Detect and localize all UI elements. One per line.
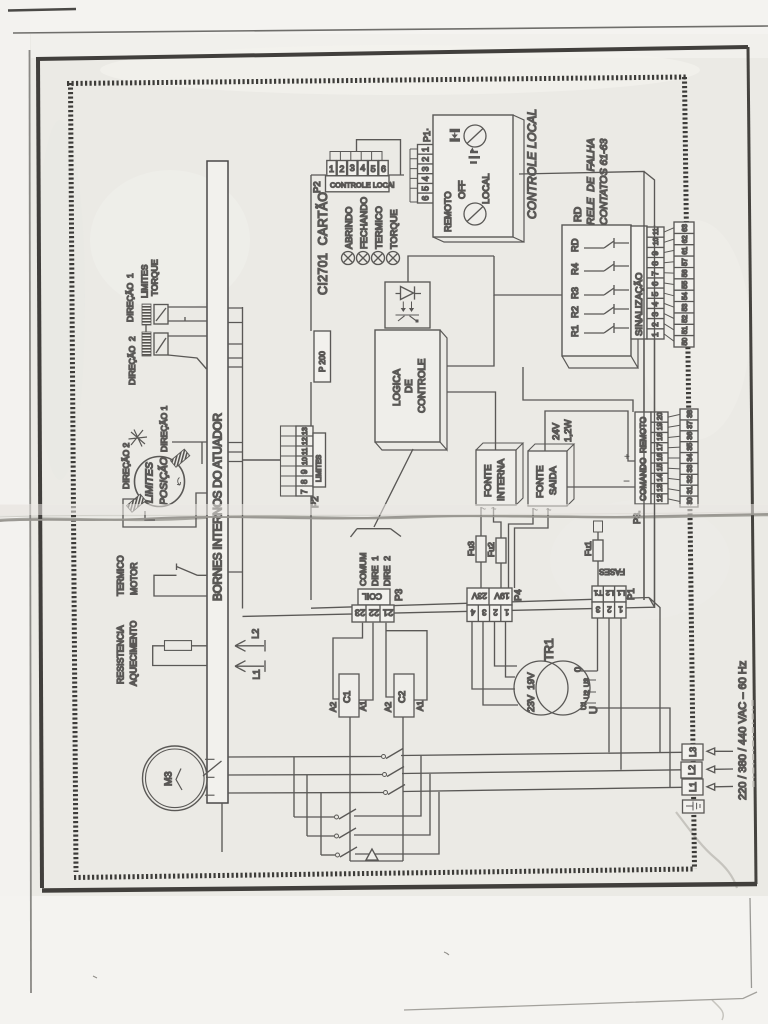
svg-text:10: 10 [302, 457, 309, 465]
resistencia aquecimento heater [153, 641, 207, 666]
svg-text:4: 4 [651, 301, 660, 306]
svg-text:FONTE: FONTE [483, 464, 494, 497]
wire TR1 tap U to L1 bus [597, 708, 670, 787]
svg-text:220 / 380 / 440 VAC – 60 Hz: 220 / 380 / 440 VAC – 60 Hz [737, 661, 749, 800]
terminal L1 [682, 779, 703, 795]
svg-text:U1: U1 [581, 701, 588, 710]
svg-text:A1: A1 [415, 700, 425, 711]
comando remoto label bar [635, 412, 651, 504]
reversing dropper 1 [293, 757, 295, 817]
svg-text:CI2701 CARTÃO: CI2701 CARTÃO [316, 192, 330, 295]
svg-text:37: 37 [687, 421, 694, 429]
svg-text:54: 54 [682, 292, 689, 300]
terminal L3 [682, 744, 703, 760]
wire controle local to sinalização feed [519, 172, 655, 609]
svg-text:19: 19 [657, 423, 664, 431]
wire relay block to comando remoto [523, 367, 633, 412]
switch icon H [450, 131, 461, 141]
main lower bus line [243, 598, 661, 753]
svg-text:LIMITES: LIMITES [140, 264, 150, 298]
controle local selector box [433, 115, 524, 242]
terminal strip 30-38 [680, 409, 698, 507]
fonte interna block [476, 443, 523, 509]
svg-text:Fu2: Fu2 [486, 542, 496, 557]
svg-text:23: 23 [355, 608, 365, 618]
svg-text:38: 38 [687, 410, 694, 418]
svg-text:C1: C1 [342, 691, 353, 703]
svg-text:ABRINDO: ABRINDO [344, 207, 354, 249]
contact C1 pole 3 [384, 791, 388, 795]
relay R2 contact [570, 304, 629, 318]
trunk rungs [228, 308, 243, 572]
svg-text:2: 2 [339, 164, 344, 174]
svg-text:TR1: TR1 [542, 638, 556, 661]
svg-text:P3: P3 [394, 588, 405, 601]
wire logica to fonte interna [447, 392, 496, 450]
contact C1 pole 2 [383, 773, 387, 777]
svg-text:3: 3 [595, 605, 600, 614]
wire P3 pin22 to C1 A1 [359, 623, 373, 700]
wires sinalização pins to strip 50-63 [664, 228, 674, 342]
motor phase wire 2 [228, 774, 382, 777]
svg-text:OFF: OFF [457, 180, 467, 199]
svg-text:5: 5 [421, 186, 431, 191]
svg-text:COMUM: COMUM [358, 553, 368, 586]
svg-text:30: 30 [687, 497, 694, 505]
svg-text:1: 1 [421, 147, 431, 152]
P4 connector [467, 588, 512, 622]
svg-text:6: 6 [421, 196, 431, 201]
wire P3 pin21 to C2 [386, 623, 427, 700]
svg-text:23V 19V: 23V 19V [526, 672, 537, 712]
svg-text:RELE DE FALHA: RELE DE FALHA [585, 138, 597, 225]
wire logica to sinalização [447, 295, 494, 366]
svg-text:P2: P2 [312, 181, 323, 193]
svg-text:L3: L3 [688, 747, 698, 757]
svg-text:LIMITES: LIMITES [144, 462, 156, 503]
svg-text:L2: L2 [251, 629, 261, 639]
svg-text:CONTROLE LOCAL: CONTROLE LOCAL [525, 109, 539, 219]
svg-text:62: 62 [682, 235, 689, 243]
wire P3 pin23 to C1 A2 [333, 623, 363, 699]
bottom faint line [404, 992, 757, 1010]
svg-text:P 200: P 200 [318, 351, 327, 372]
svg-text:CONTROLE LOCAl: CONTROLE LOCAl [330, 181, 395, 190]
svg-text:6: 6 [651, 281, 660, 286]
svg-text:7: 7 [651, 271, 660, 276]
svg-text:COMANDO REMOTO: COMANDO REMOTO [638, 416, 648, 501]
svg-text:13: 13 [657, 484, 664, 492]
svg-text:RD: RD [570, 238, 580, 252]
svg-text:63: 63 [682, 224, 689, 232]
svg-text:U2: U2 [584, 690, 591, 699]
svg-text:9: 9 [300, 469, 309, 474]
svg-text:57: 57 [682, 258, 689, 266]
fonte saida block [528, 444, 574, 510]
svg-text:56: 56 [682, 269, 689, 277]
thick outer frame [36, 47, 748, 59]
crease overlay line [0, 514, 768, 521]
svg-text:R4: R4 [570, 263, 580, 275]
svg-text:21: 21 [383, 608, 393, 618]
svg-text:4: 4 [470, 608, 475, 617]
svg-text:P1: P1 [626, 588, 637, 600]
svg-text:L2: L2 [687, 765, 697, 775]
svg-text:22: 22 [369, 608, 379, 618]
svg-text:11: 11 [302, 448, 309, 455]
svg-text:M3: M3 [163, 771, 175, 786]
svg-text:+: + [624, 452, 630, 463]
svg-text:34: 34 [687, 454, 694, 462]
svg-text:REMOTO: REMOTO [443, 191, 453, 232]
reversing dropper 2 [306, 775, 308, 836]
svg-text:15: 15 [657, 463, 664, 471]
svg-text:3: 3 [421, 166, 431, 171]
left thin edge line [30, 50, 32, 993]
motor M3 [143, 746, 208, 811]
svg-text:RESISTENCIA: RESISTENCIA [116, 625, 126, 684]
svg-text:35: 35 [687, 443, 694, 451]
limit switch torque direção 2 [142, 325, 168, 356]
arrow into L1 [707, 784, 733, 791]
bornes internos do atuador terminal bar [207, 161, 228, 803]
svg-text:SAIDA: SAIDA [548, 466, 559, 495]
svg-text:U3: U3 [584, 678, 591, 687]
card edge notch at Fu1 [594, 521, 603, 532]
svg-text:FECHANDO: FECHANDO [359, 197, 369, 249]
contact C1 pole 1 [382, 755, 386, 759]
svg-text:36: 36 [687, 432, 694, 440]
bottom-right fold crease [676, 812, 737, 888]
terminal ground box [683, 800, 705, 813]
limit switch torque direção 1 [142, 304, 168, 325]
arrow L1 [235, 660, 265, 679]
svg-text:MOTOR: MOTOR [129, 562, 139, 595]
svg-text:TERMICO: TERMICO [116, 555, 126, 596]
svg-text:LOGICA: LOGICA [392, 369, 403, 406]
svg-text:24V: 24V [551, 422, 562, 440]
wire bar bottom stub [221, 803, 223, 852]
svg-text:A2: A2 [383, 701, 393, 712]
motor mounting diagonal [203, 761, 222, 776]
transformer TR1 [514, 638, 600, 715]
svg-text:1: 1 [504, 608, 509, 617]
CI2701 card outline left edge [310, 175, 312, 600]
svg-text:61: 61 [682, 247, 689, 255]
interlock link line [350, 860, 403, 862]
svg-text:A2: A2 [328, 701, 338, 712]
dashed inner border right [685, 77, 695, 869]
svg-text:8: 8 [300, 479, 309, 484]
svg-text:Fu3: Fu3 [466, 541, 476, 556]
svg-text:R3: R3 [570, 287, 580, 299]
lamp TERMICO [372, 206, 385, 264]
arrow L2 [235, 629, 265, 652]
lamp TORQUE [387, 209, 400, 264]
P2 limites pin cells 7-13 [296, 426, 313, 496]
svg-text:LIMITES: LIMITES [316, 454, 323, 482]
svg-text:2: 2 [493, 608, 498, 617]
svg-text:3: 3 [482, 608, 487, 617]
svg-text:L1: L1 [617, 589, 625, 598]
svg-text:4: 4 [421, 176, 431, 181]
CI2701 card outline top edge [311, 174, 404, 176]
wire fonte saida pins to P4 [509, 508, 549, 588]
P2 controle local connector tabs [330, 152, 382, 161]
svg-text:5: 5 [371, 164, 376, 174]
right thin line bottom [750, 898, 752, 988]
contactor coil C1 [328, 674, 368, 717]
wire diode block top to sinalização [408, 256, 562, 295]
arrow into L3 [707, 748, 733, 755]
motor phase wire 3 [228, 792, 383, 795]
svg-text:POSIÇÃO: POSIÇÃO [157, 457, 170, 505]
svg-text:U: U [588, 706, 600, 714]
svg-text:19V: 19V [494, 591, 509, 601]
limit mechanism outline lower [123, 493, 207, 527]
svg-text:TORQUE: TORQUE [389, 209, 399, 249]
crease overlay band [0, 504, 768, 515]
svg-text:C2: C2 [397, 691, 408, 703]
svg-text:32: 32 [687, 475, 694, 483]
svg-text:12: 12 [302, 437, 309, 445]
terminal strip 50-63 [674, 222, 694, 347]
P 200 connector box [314, 331, 331, 382]
svg-text:R1: R1 [570, 325, 580, 337]
svg-text:CONTATOS 61-63: CONTATOS 61-63 [598, 138, 610, 225]
svg-text:TERMICO: TERMICO [374, 206, 384, 249]
bar terminal trunk line [242, 307, 244, 609]
svg-text:9: 9 [651, 251, 660, 256]
top-left page edge mark [8, 9, 76, 11]
relay RD contact [570, 238, 629, 252]
svg-text:L2: L2 [606, 589, 614, 598]
svg-text:53: 53 [682, 304, 689, 312]
svg-text:4: 4 [360, 163, 365, 173]
relay R1 contact [570, 323, 629, 337]
svg-text:DE: DE [404, 379, 415, 393]
relay R3 contact [570, 285, 629, 299]
dashed inner border left [71, 83, 77, 872]
wire bar to P2 limites connector [243, 459, 281, 461]
svg-text:7: 7 [300, 489, 309, 494]
limites posição dial [135, 457, 185, 507]
svg-text:12: 12 [657, 494, 664, 502]
svg-text:INTERNA: INTERNA [496, 458, 507, 501]
P2 limites label bar [313, 433, 326, 487]
reversing row 3 + contact C2 pole 3 [321, 854, 335, 856]
wire P1 pin3 to TR1 tap 0 [581, 618, 598, 671]
wires comando remoto pins to strip 30-38 [668, 414, 680, 501]
svg-text:DIREÇÃO 1: DIREÇÃO 1 [159, 405, 169, 452]
sinalização label bar [631, 226, 647, 339]
svg-text:31: 31 [687, 486, 694, 494]
paper specks [93, 952, 449, 978]
fuse Fu1 [583, 540, 603, 561]
svg-text:DIREÇÃO 1: DIREÇÃO 1 [125, 273, 135, 322]
knob upper [464, 125, 486, 147]
svg-text:P1·: P1· [422, 128, 432, 142]
cam hatched block lower [127, 494, 146, 512]
svg-text:R2: R2 [570, 306, 580, 318]
svg-text:T1: T1 [594, 589, 603, 598]
svg-text:COIL: COIL [362, 592, 382, 602]
dashed inner border top [67, 77, 686, 84]
svg-text:L1: L1 [688, 782, 698, 792]
motor terminal stubs [205, 759, 215, 795]
lamp FECHANDO [357, 197, 370, 265]
svg-text:RD: RD [572, 206, 584, 222]
termico motor element [154, 564, 207, 597]
star symbol [125, 430, 147, 448]
wire vertical feeds over strips [644, 225, 655, 608]
svg-text:50: 50 [682, 338, 689, 346]
wires P4 pins to TR1 [472, 622, 515, 690]
relay R4 contact [570, 261, 629, 275]
logica de controle block [375, 330, 447, 450]
wire C1 actuator link [349, 717, 351, 861]
reversing row 1 + contact C2 pole 1 [294, 816, 334, 818]
cam hatched block upper [171, 449, 190, 467]
wire fonte saida - to pin 14 [567, 486, 635, 488]
svg-text:DIRE 1: DIRE 1 [370, 556, 380, 586]
svg-text:Fu1: Fu1 [583, 541, 593, 556]
svg-text:23V: 23V [472, 591, 487, 601]
P3 coil connector [352, 589, 394, 622]
wire fonte interna to P4 via Fu3 [480, 507, 482, 588]
svg-text:DIREÇÃO 2: DIREÇÃO 2 [127, 336, 137, 385]
svg-text:P4: P4 [513, 589, 524, 601]
svg-text:DIRE 2: DIRE 2 [382, 556, 392, 586]
card bottom bus line [311, 598, 649, 609]
svg-text:2: 2 [421, 157, 431, 162]
motor phase wire 1 [228, 756, 381, 759]
contactor coil C2 [383, 674, 425, 717]
mid page crease [0, 505, 768, 517]
P1 top pin cells 1-6 [418, 145, 434, 204]
reversing dropper 3 [320, 793, 322, 855]
wire P1 pin1 to L2 bus [620, 618, 622, 770]
svg-text:13: 13 [302, 427, 309, 435]
wire Fu1 to P1 [597, 532, 599, 586]
P1 fases connector [592, 567, 626, 618]
wire fonte saida + to pin 16 [545, 411, 635, 461]
svg-text:FONTE: FONTE [535, 465, 546, 498]
interlock triangle [366, 849, 378, 860]
svg-text:5: 5 [651, 291, 660, 296]
svg-text:1: 1 [329, 164, 334, 174]
comando remoto pin cells 12-20 [651, 412, 668, 504]
svg-text:20: 20 [657, 412, 664, 420]
svg-text:1: 1 [651, 332, 660, 337]
svg-text:3: 3 [350, 163, 355, 173]
svg-text:3: 3 [651, 312, 660, 317]
svg-text:−: − [623, 474, 630, 488]
P2 controle local pin cells 1-6 [327, 161, 388, 176]
thin top edge line [13, 26, 768, 33]
svg-text:L1: L1 [252, 669, 262, 679]
sinalização relay block [562, 225, 638, 368]
dashed inner border bottom [74, 869, 694, 878]
wire P1 pin2 to L3 bus [608, 618, 610, 752]
P1 top connector tabs [410, 149, 418, 202]
svg-text:2: 2 [607, 605, 612, 614]
fuse Fu2 [486, 538, 506, 563]
wire torque sw1 to bar [168, 307, 207, 321]
reversing row 2 + contact C2 pole 2 [307, 835, 334, 837]
svg-text:TORQUE: TORQUE [150, 259, 160, 296]
svg-text:1,2W: 1,2W [563, 419, 574, 442]
wire torque sw2 to bar [168, 336, 207, 369]
svg-text:8: 8 [651, 261, 660, 266]
wire C2 actuator link [402, 717, 404, 861]
svg-text:17: 17 [657, 443, 664, 451]
wire P2 top to card edge [357, 140, 401, 176]
switch icon bars [469, 152, 481, 163]
paper shading patches [640, 220, 750, 440]
svg-text:2: 2 [651, 322, 660, 327]
svg-text:A1: A1 [358, 700, 368, 711]
svg-text:CONTROLE: CONTROLE [417, 358, 428, 413]
terminal L2 [681, 762, 702, 778]
svg-text:FASES: FASES [599, 567, 625, 576]
svg-text:52: 52 [682, 315, 689, 323]
arrow into L2 [707, 766, 733, 773]
svg-text:AQUECIMENTO: AQUECIMENTO [129, 621, 139, 686]
svg-text:LOCAL: LOCAL [481, 174, 491, 205]
svg-text:DIREÇÃO 2: DIREÇÃO 2 [121, 442, 131, 489]
faint smudge dashes [753, 700, 754, 790]
P2 limites connector tabs [281, 426, 297, 496]
sinalização pin cells 1-11 [647, 227, 664, 339]
svg-text:14: 14 [657, 474, 664, 482]
svg-text:1: 1 [618, 605, 623, 614]
svg-text:55: 55 [682, 281, 689, 289]
svg-text:16: 16 [657, 453, 664, 461]
diode / thyristor block [385, 282, 430, 328]
svg-text:33: 33 [687, 465, 694, 473]
svg-text:6: 6 [381, 164, 386, 174]
limit mechanism outline upper [172, 442, 207, 464]
svg-text:51: 51 [682, 326, 689, 334]
P2 controle local label bar [326, 176, 395, 192]
fuse Fu3 [466, 536, 486, 562]
lamp ABRINDO [342, 207, 355, 265]
wire fonte interna to P4 via Fu2 [494, 507, 502, 588]
svg-text:18: 18 [657, 433, 664, 441]
wire logica to P3 coil fan [351, 449, 414, 537]
knob lower [464, 203, 486, 225]
